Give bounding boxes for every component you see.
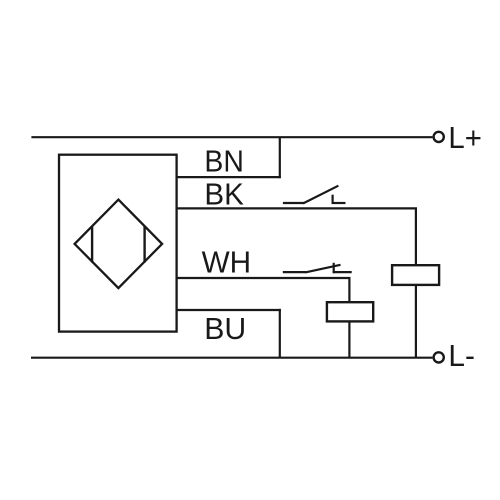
wire WH horizontal [177,277,351,279]
svg-text:L-: L- [448,338,475,373]
switch S1 contact vertical [332,195,334,204]
wire BK horizontal [177,207,417,209]
svg-text:BU: BU [204,311,246,346]
switch S2 contact horizontal [333,271,352,273]
load RL2 (WH branch) [327,302,373,321]
svg-text:L+: L+ [448,120,482,155]
switch S1 blade [303,186,338,204]
wire WH drop to L- [348,278,350,358]
wire BU drop to L- [279,309,281,358]
sensor U1 proximity diamond [75,200,163,289]
svg-text:BK: BK [204,177,244,212]
wire BN horizontal [177,176,281,178]
wire L+ rail [31,136,432,138]
switch S2 blade [305,265,340,273]
switch S1 (BK output, NO) lead [283,202,304,204]
wire BN riser to L+ [279,137,281,178]
switch S1 contact horizontal [332,202,346,204]
svg-text:WH: WH [202,244,252,279]
wire BU horizontal [177,309,281,311]
sensor U1 diamond right bar [143,226,145,263]
switch S2 contact vertical [333,263,335,273]
terminal L+ [434,132,444,142]
terminal L- [434,352,444,362]
svg-text:BN: BN [204,144,244,179]
wire L- rail [31,357,432,359]
sensor U1 body [59,155,177,332]
wire BK drop to L- [415,208,417,357]
load RL1 (BK branch) [392,265,439,285]
switch S2 (WH output, NC) lead [283,271,306,273]
sensor U1 diamond left bar [91,226,93,263]
